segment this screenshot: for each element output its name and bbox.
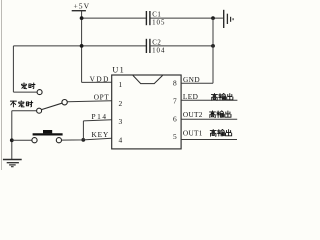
wire C1 row left <box>82 17 146 19</box>
op IC U1 box <box>112 75 181 149</box>
wire KEY <box>62 138 112 140</box>
node: C2 / GND net junction <box>211 44 215 48</box>
wire C2 row right <box>150 45 213 47</box>
node: +5V / C2 junction <box>80 44 84 48</box>
wire LED <box>181 99 237 101</box>
wire OUT2 <box>181 118 237 120</box>
wire C1 row right <box>150 17 223 19</box>
pushbutton S2 actuator <box>43 130 52 133</box>
wire OPT <box>67 101 111 102</box>
label 高输出 (OUT2 row) <box>210 111 231 118</box>
label 高输出 (OUT1 row) <box>210 129 231 136</box>
svg-text:104: 104 <box>152 47 165 54</box>
svg-text:105: 105 <box>152 20 165 27</box>
wire to pushbutton <box>12 139 32 141</box>
svg-text:3: 3 <box>118 117 122 126</box>
svg-text:OUT1: OUT1 <box>183 129 203 138</box>
node: pushbutton / key junction <box>81 138 85 142</box>
svg-text:KEY: KEY <box>91 130 109 139</box>
label 定时 <box>22 83 36 89</box>
ground (bottom left) <box>3 160 22 167</box>
svg-text:P14: P14 <box>91 112 107 121</box>
svg-text:C2: C2 <box>152 39 161 46</box>
node A: timed contact <box>37 90 42 95</box>
svg-text:U1: U1 <box>112 65 125 74</box>
wire left bus lower to ground <box>11 111 13 160</box>
svg-text:C1: C1 <box>152 11 161 18</box>
svg-text:6: 6 <box>173 115 177 124</box>
node: ground bus / pushbutton junction <box>10 138 14 142</box>
capacitor C1 <box>146 11 165 27</box>
svg-text:4: 4 <box>118 136 122 145</box>
wire from untimed contact to lower bus <box>12 110 37 112</box>
wire OUT1 <box>181 139 237 141</box>
capacitor C2 <box>146 39 165 55</box>
U1 notch <box>133 75 163 83</box>
node: +5V / C1 junction <box>80 16 84 20</box>
svg-text:8: 8 <box>173 79 177 88</box>
wire VDD <box>82 81 112 83</box>
wire C2 row left <box>13 45 146 47</box>
pushbutton S2 bar <box>33 133 63 135</box>
pushbutton S2 contact right <box>56 138 61 143</box>
svg-text:+5V: +5V <box>74 1 91 10</box>
node B: untimed contact <box>37 108 42 113</box>
wire P14 <box>83 120 111 121</box>
svg-text:OPT: OPT <box>94 93 110 102</box>
svg-text:GND: GND <box>183 75 200 84</box>
switch S1 arm <box>42 103 62 109</box>
svg-text:OUT2: OUT2 <box>183 110 203 119</box>
node: C1 / GND net junction <box>211 16 215 20</box>
svg-text:5: 5 <box>173 132 177 141</box>
wire +5V vertical to pin1 <box>81 11 83 83</box>
faint page border left <box>1 0 3 170</box>
label 高输出 (LED row) <box>211 93 232 100</box>
wire GND vertical <box>212 18 214 83</box>
pushbutton S2 contact left <box>32 138 37 143</box>
svg-text:1: 1 <box>118 80 122 89</box>
wire P14 vertical <box>82 121 84 140</box>
ground (top right) <box>224 10 233 28</box>
label 不定时 <box>10 101 32 107</box>
svg-text:VDD: VDD <box>90 74 110 83</box>
switch S1 pole <box>62 100 67 105</box>
svg-text:7: 7 <box>173 97 177 106</box>
svg-text:LED: LED <box>183 92 198 101</box>
wire left bus upper (to timed contact) <box>12 46 14 92</box>
svg-text:2: 2 <box>118 99 122 108</box>
+5V power bar <box>72 10 86 12</box>
wire GND pin <box>181 82 213 84</box>
wire to ding-shi contact <box>13 91 37 93</box>
